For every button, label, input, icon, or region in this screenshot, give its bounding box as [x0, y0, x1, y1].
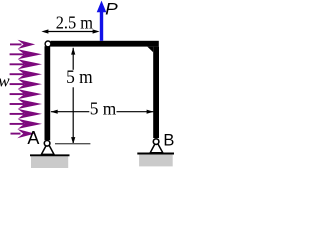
pin (hinge) at top-left joint — [45, 41, 51, 47]
svg-text:5 m: 5 m — [90, 98, 117, 118]
extension line at pin level — [55, 143, 90, 145]
ground block B — [139, 154, 173, 166]
load arrow 6 — [10, 93, 24, 95]
right column — [153, 47, 159, 138]
load arrow 5 — [10, 83, 24, 85]
support A pin circle — [44, 141, 50, 147]
svg-text:5 m: 5 m — [66, 68, 93, 88]
beam (top member) — [51, 41, 159, 47]
load arrow 3 — [10, 63, 24, 65]
corner haunch top-right — [147, 47, 153, 53]
ground block A — [31, 156, 68, 168]
svg-text:2.5 m: 2.5 m — [56, 13, 93, 33]
load arrow 7 — [10, 103, 24, 105]
support B pin circle — [153, 139, 159, 145]
load P arrow (blue) — [100, 12, 103, 41]
svg-text:w: w — [0, 72, 10, 91]
load arrow 9 — [10, 123, 24, 125]
left column — [45, 46, 51, 140]
distributed load w arrows (purple) — [10, 40, 42, 138]
support A triangle — [41, 143, 54, 155]
load arrow 4 — [10, 73, 24, 75]
ground line A — [30, 154, 70, 156]
load arrow 2 — [10, 53, 24, 55]
svg-text:B: B — [163, 132, 174, 150]
horizontal dimension line 5 m — [51, 111, 89, 113]
load arrow 8 — [10, 113, 24, 115]
svg-text:A: A — [27, 128, 39, 148]
support B triangle — [150, 141, 163, 153]
load arrow 10 — [11, 133, 21, 135]
svg-text:P: P — [105, 0, 118, 18]
vertical dimension line 5 m — [72, 48, 74, 70]
dimension line 2.5 m — [48, 31, 94, 33]
load arrow 1 — [10, 43, 22, 45]
ground line B — [137, 153, 174, 155]
